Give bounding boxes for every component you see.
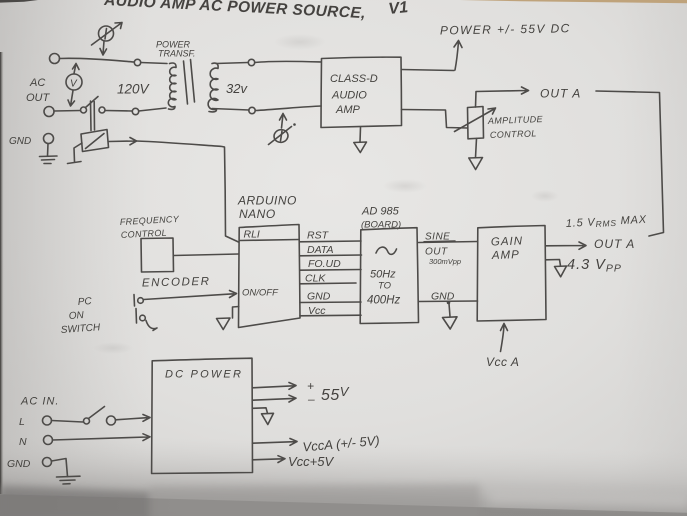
pin DATA — [300, 244, 362, 256]
svg-text:AC: AC — [29, 77, 45, 89]
wire to primary bottom — [139, 108, 166, 111]
svg-text:GND: GND — [7, 458, 31, 470]
wire to class-d in2 — [255, 106, 321, 111]
label AC OUT — [26, 77, 51, 104]
svg-text:ON/OFF: ON/OFF — [242, 288, 279, 299]
terminal (open) secondary top — [248, 59, 254, 65]
switch pivot contact — [81, 107, 87, 113]
label FREQUENCY CONTROL — [120, 214, 180, 240]
meter I2 (phase) — [269, 114, 296, 145]
switch S2 blade — [89, 407, 105, 419]
meter I1 — [92, 23, 123, 56]
pin Vcc — [300, 305, 361, 317]
svg-text:OUT A: OUT A — [540, 87, 581, 101]
svg-text:Vcc+5V: Vcc+5V — [288, 454, 334, 469]
wire +55V out a — [253, 383, 297, 390]
svg-text:AUDIO: AUDIO — [331, 90, 367, 102]
terminal (open) bottom mid — [132, 108, 138, 114]
wire PC-ON to arduino ON/OFF — [144, 291, 237, 300]
svg-text:400Hz: 400Hz — [367, 295, 400, 307]
label POWER +/- 55V DC — [440, 21, 571, 37]
svg-text:ENCODER: ENCODER — [142, 276, 211, 290]
block U2 ARDUINO NANO — [239, 225, 301, 328]
label OUT A (right) — [594, 237, 635, 251]
svg-text:ON: ON — [68, 310, 85, 322]
relay K1 coil — [81, 130, 109, 152]
label AMPLITUDE CONTROL — [487, 114, 544, 140]
label AC IN. — [20, 396, 59, 408]
svg-text:TRANSF.: TRANSF. — [158, 49, 195, 59]
relay K1 linkage — [91, 101, 95, 131]
wire secondary top — [216, 63, 248, 64]
svg-text:RLI: RLI — [244, 229, 260, 241]
wire N to dc power — [53, 434, 151, 441]
svg-text:N: N — [19, 436, 27, 448]
label AD985 (BOARD) — [361, 206, 401, 231]
meter V (voltmeter) — [66, 64, 82, 107]
svg-text:120V: 120V — [117, 82, 151, 97]
svg-text:POWER +/- 55V DC: POWER +/- 55V DC — [440, 21, 571, 37]
label 1.5 VRMS MAX — [566, 214, 648, 231]
pin CLK — [300, 273, 356, 285]
svg-text:Vcc A: Vcc A — [486, 355, 519, 369]
wire encoder to arduino — [174, 254, 239, 256]
label +/- 55V — [307, 379, 350, 406]
pin GND — [300, 291, 361, 303]
svg-text:NANO: NANO — [239, 207, 276, 221]
svg-text:L: L — [19, 416, 25, 428]
wire -55V out b — [253, 395, 297, 402]
svg-text:GND: GND — [431, 291, 455, 303]
label ARDUINO NANO — [237, 194, 297, 222]
label GND (upper left) — [9, 136, 31, 147]
switch contact 2 — [99, 107, 105, 113]
transformer secondary coil — [208, 63, 218, 112]
svg-text:–: – — [307, 392, 315, 406]
label SINE OUT 300mVpp — [425, 232, 461, 267]
terminal GND — [44, 134, 54, 144]
wire bottom to switch — [54, 110, 81, 113]
svg-text:DC POWER: DC POWER — [165, 369, 243, 381]
label GND (bottom) — [7, 458, 31, 470]
block U3 AD985 DDS — [360, 228, 418, 324]
svg-text:DATA: DATA — [307, 244, 333, 256]
svg-text:OUT: OUT — [26, 92, 51, 104]
wire AD985 sine out — [419, 242, 478, 243]
block encoder — [141, 238, 174, 272]
label 4.3 Vpp — [567, 257, 622, 275]
value 120V — [117, 82, 151, 97]
block U4 GAIN AMP — [477, 226, 546, 322]
switch S2 contact — [107, 416, 116, 425]
svg-text:50Hz: 50Hz — [370, 269, 396, 281]
label VccA (+/- 5V) — [302, 433, 380, 455]
terminal N — [44, 436, 53, 445]
svg-text:TO: TO — [378, 281, 392, 292]
label L — [19, 416, 25, 428]
switch PC-ON — [134, 295, 157, 331]
block PS1 DC POWER — [152, 358, 253, 473]
wire L to switch — [52, 421, 84, 423]
terminal GND bottom — [43, 458, 52, 467]
block U1 CLASS-D AUDIO AMP — [321, 57, 402, 127]
ground below pot — [469, 139, 483, 170]
wire L switch to dc power — [116, 415, 151, 422]
terminal AC OUT top — [50, 54, 60, 64]
potentiometer R1 amplitude — [455, 107, 496, 139]
relay bracket — [68, 143, 83, 164]
svg-text:PC: PC — [77, 296, 92, 308]
wire AD985 gnd — [419, 300, 478, 303]
terminal AC OUT bottom — [44, 107, 54, 117]
svg-text:AMP: AMP — [335, 104, 361, 116]
pin FO.UD — [300, 258, 361, 270]
wire VccA arrow into gain amp — [501, 324, 508, 352]
switch S2 pivot — [84, 418, 90, 424]
ground stub dc power — [253, 408, 274, 425]
ground below arduino — [217, 307, 239, 330]
wire Vcc+5V out — [253, 456, 286, 463]
wire pot wiper to OUT A (top) — [476, 87, 529, 107]
junction dot — [447, 301, 451, 305]
wire class-d out to pot — [402, 110, 468, 129]
svg-text:AMP: AMP — [491, 249, 520, 262]
svg-text:32v: 32v — [226, 81, 248, 96]
wire secondary bottom — [212, 109, 249, 111]
wire VccA out — [253, 439, 298, 446]
label GND (dds) — [431, 291, 455, 303]
wire AC top to terminal — [60, 58, 135, 62]
transformer primary coil — [168, 63, 176, 109]
underline under SINE — [424, 240, 455, 243]
label N — [19, 436, 27, 448]
terminal (open) top mid — [134, 59, 140, 65]
ground earth (upper left) — [40, 144, 58, 164]
svg-text:FO.UD: FO.UD — [308, 258, 341, 270]
wire to primary top — [141, 63, 167, 64]
title AUDIO AMP AC POWER SOURCE, V1 (cut off at top) — [103, 0, 409, 22]
svg-text:GAIN: GAIN — [491, 235, 524, 248]
label Vcc+5V — [288, 454, 334, 469]
wire class-d power to +/-55V arrow — [402, 41, 463, 71]
pin RST — [300, 230, 362, 242]
svg-text:AD 985: AD 985 — [361, 206, 400, 218]
terminal L — [43, 416, 52, 425]
svg-text:AMPLITUDE: AMPLITUDE — [487, 114, 544, 126]
wire switch to terminal — [105, 110, 132, 113]
ground right of gain amp — [546, 260, 567, 277]
svg-text:OUT: OUT — [425, 247, 448, 258]
label ENCODER — [142, 276, 211, 290]
terminal (open) secondary bottom — [249, 107, 255, 113]
label OUT A (top) — [540, 87, 581, 101]
svg-text:GND: GND — [307, 291, 331, 303]
svg-text:CLASS-D: CLASS-D — [330, 73, 378, 85]
transformer core — [184, 60, 195, 105]
svg-text:V1: V1 — [388, 0, 409, 18]
svg-text:OUT A: OUT A — [594, 237, 635, 251]
svg-text:+: + — [307, 379, 314, 393]
svg-text:RST: RST — [307, 230, 330, 242]
wire to class-d in1 — [255, 61, 321, 62]
label PC ON SWITCH — [60, 296, 101, 336]
switch blade — [86, 97, 99, 108]
label POWER TRANSF. — [156, 40, 195, 59]
wire OUT A to right bus — [596, 91, 664, 236]
label Vcc A — [486, 355, 519, 369]
ground earth bottom — [52, 459, 81, 485]
svg-text:GND: GND — [9, 136, 31, 147]
ground below class-d — [354, 128, 367, 153]
ground below sine gnd wire — [443, 304, 458, 330]
value 32v — [226, 81, 248, 96]
svg-text:CONTROL: CONTROL — [490, 128, 537, 140]
svg-text:ARDUINO: ARDUINO — [237, 194, 297, 208]
wire relay to arduino RLI — [109, 138, 239, 243]
svg-text:300mVpp: 300mVpp — [429, 257, 461, 266]
wire gain amp out — [546, 242, 586, 249]
svg-text:AC IN.: AC IN. — [20, 396, 59, 408]
